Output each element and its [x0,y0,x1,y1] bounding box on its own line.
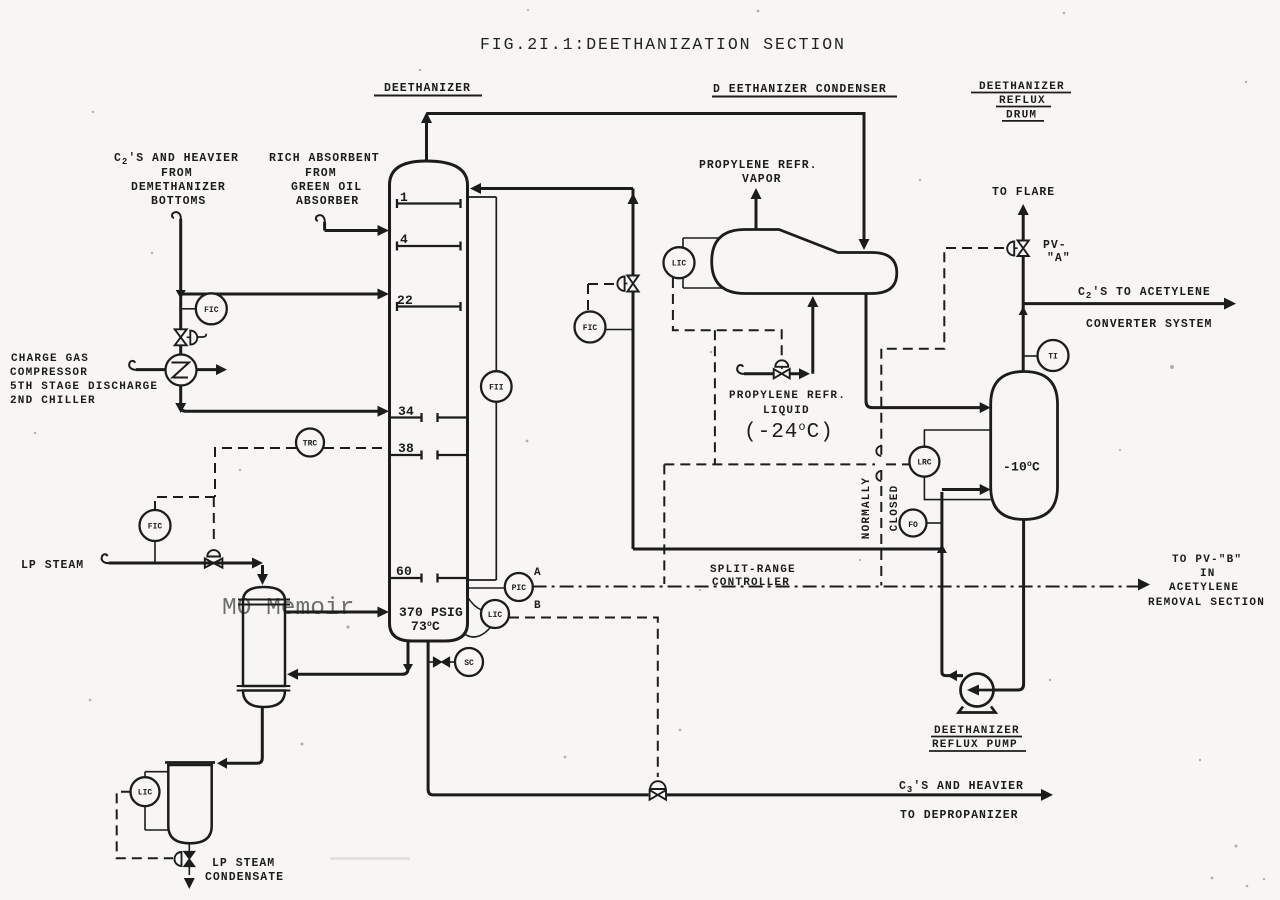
svg-text:TO PV-"B": TO PV-"B" [1172,554,1242,566]
svg-text:5TH STAGE DISCHARGE: 5TH STAGE DISCHARGE [10,381,158,393]
svg-text:ABSORBER: ABSORBER [296,195,359,208]
svg-text:REFLUX: REFLUX [999,95,1046,107]
svg-text:34: 34 [398,404,414,419]
svg-text:38: 38 [398,441,414,456]
svg-text:60: 60 [396,564,412,579]
svg-text:SC: SC [464,659,474,668]
svg-text:LP STEAM: LP STEAM [21,559,84,572]
svg-text:COMPRESSOR: COMPRESSOR [10,367,88,379]
svg-text:D EETHANIZER CONDENSER: D EETHANIZER CONDENSER [713,83,887,96]
svg-text:CONVERTER SYSTEM: CONVERTER SYSTEM [1086,318,1212,331]
svg-text:NORMALLY: NORMALLY [861,477,873,539]
svg-text:DEETHANIZER: DEETHANIZER [934,725,1020,737]
svg-text:FO: FO [908,521,918,530]
svg-text:BOTTOMS: BOTTOMS [151,195,206,208]
svg-text:C3'S AND HEAVIER: C3'S AND HEAVIER [899,780,1024,795]
svg-text:B: B [534,600,542,612]
svg-text:FII: FII [489,384,504,393]
svg-text:370 PSIG: 370 PSIG [399,605,463,620]
svg-text:22: 22 [397,293,413,308]
svg-text:FIC: FIC [583,324,598,333]
svg-text:FIC: FIC [204,306,219,315]
svg-text:IN: IN [1200,568,1216,580]
svg-text:TO DEPROPANIZER: TO DEPROPANIZER [900,809,1019,822]
svg-text:DEETHANIZER: DEETHANIZER [979,81,1065,93]
svg-text:PV-: PV- [1043,239,1067,252]
svg-text:-10oC: -10oC [1003,460,1040,475]
svg-text:DEMETHANIZER: DEMETHANIZER [131,181,226,194]
svg-text:CONDENSATE: CONDENSATE [205,871,284,884]
svg-text:LIC: LIC [138,789,153,798]
svg-text:2ND CHILLER: 2ND CHILLER [10,395,96,407]
svg-text:1: 1 [400,190,408,205]
svg-text:DRUM: DRUM [1006,110,1037,122]
svg-text:TRC: TRC [303,440,318,449]
svg-text:SPLIT-RANGE: SPLIT-RANGE [710,564,796,576]
svg-text:MO Memoir: MO Memoir [222,595,354,622]
svg-text:LIC: LIC [488,611,503,620]
svg-text:TI: TI [1048,353,1058,362]
svg-text:PIC: PIC [512,584,527,593]
svg-text:REFLUX PUMP: REFLUX PUMP [932,739,1018,751]
svg-text:CHARGE GAS: CHARGE GAS [11,353,89,365]
svg-text:GREEN OIL: GREEN OIL [291,181,362,194]
svg-text:"A": "A" [1047,252,1071,265]
svg-text:RICH ABSORBENT: RICH ABSORBENT [269,152,380,165]
svg-text:FROM: FROM [305,167,337,180]
svg-text:A: A [534,567,542,579]
svg-text:DEETHANIZER: DEETHANIZER [384,82,471,95]
svg-text:(-24oC): (-24oC) [744,420,834,444]
svg-text:FIC: FIC [148,523,163,532]
svg-text:LRC: LRC [917,459,932,468]
svg-text:4: 4 [400,232,408,247]
svg-text:C2'S AND HEAVIER: C2'S AND HEAVIER [114,152,239,167]
svg-text:73oC: 73oC [411,619,440,634]
svg-text:C2'S TO ACETYLENE: C2'S TO ACETYLENE [1078,286,1211,301]
svg-text:TO FLARE: TO FLARE [992,186,1055,199]
svg-text:REMOVAL SECTION: REMOVAL SECTION [1148,597,1265,609]
svg-text:ACETYLENE: ACETYLENE [1169,582,1239,594]
svg-text:VAPOR: VAPOR [742,173,782,186]
svg-text:FROM: FROM [161,167,193,180]
svg-text:LP STEAM: LP STEAM [212,857,275,870]
svg-text:PROPYLENE REFR.: PROPYLENE REFR. [699,159,818,172]
svg-text:LIC: LIC [672,260,687,269]
svg-text:PROPYLENE REFR.: PROPYLENE REFR. [729,390,846,402]
svg-text:FIG.2I.1:DEETHANIZATION SECTIO: FIG.2I.1:DEETHANIZATION SECTION [480,35,846,54]
svg-text:LIQUID: LIQUID [763,405,810,417]
